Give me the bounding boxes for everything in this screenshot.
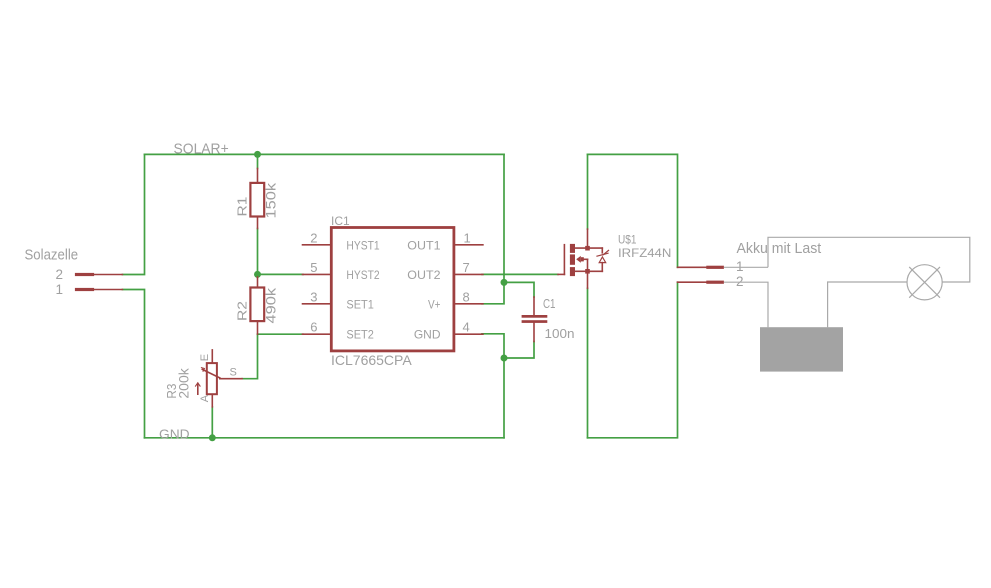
node junction SOLAR+/R1 bbox=[254, 151, 261, 158]
wire lamp left to battery bbox=[828, 282, 907, 327]
connector X1 Solazelle pin 2 bbox=[75, 273, 123, 276]
svg-text:490k: 490k bbox=[263, 287, 279, 324]
svg-text:2: 2 bbox=[55, 267, 63, 282]
wire MOSFET source down bbox=[587, 288, 589, 438]
wire R2 bottom T down to R3 wiper bbox=[242, 334, 257, 379]
wire V+ supply vertical from SOLAR+ rail bbox=[503, 154, 505, 282]
svg-text:HYST2: HYST2 bbox=[346, 268, 379, 282]
connector Akku pin 1 bbox=[678, 266, 724, 269]
wire R2 bottom T to SET2 pin 6 bbox=[258, 333, 304, 335]
svg-text:6: 6 bbox=[310, 320, 317, 335]
IC1 pin 3 SET1 bbox=[303, 303, 332, 305]
wire GND node down to GND rail bbox=[503, 358, 505, 438]
transistor U$1 IRFZ44N bbox=[558, 229, 609, 288]
node junction R3/GND rail bbox=[209, 434, 216, 441]
svg-text:OUT1: OUT1 bbox=[407, 238, 441, 252]
wire supply node to V+ pin 8 bbox=[482, 282, 504, 303]
wire source net bottom to Akku pin 2 bbox=[588, 282, 678, 438]
svg-text:2: 2 bbox=[310, 230, 317, 245]
svg-text:GND: GND bbox=[159, 426, 190, 441]
svg-text:1: 1 bbox=[736, 259, 744, 274]
node junction V+/C1 top bbox=[501, 279, 508, 286]
resistor R1 bbox=[250, 169, 264, 229]
wire GND pin 4 to GND node bbox=[482, 334, 504, 358]
connector X1 Solazelle pin 1 bbox=[75, 288, 123, 291]
wire GND node to C1 bottom bbox=[504, 342, 534, 359]
svg-text:200k: 200k bbox=[176, 367, 192, 398]
svg-text:SET2: SET2 bbox=[346, 328, 374, 342]
svg-text:4: 4 bbox=[463, 320, 470, 335]
IC1 pin 2 HYST1 bbox=[303, 244, 332, 246]
svg-text:SET1: SET1 bbox=[346, 297, 374, 311]
svg-text:C1: C1 bbox=[543, 297, 556, 311]
svg-text:1: 1 bbox=[55, 282, 63, 297]
svg-text:Solazelle: Solazelle bbox=[25, 248, 79, 264]
wire HYST2 node to IC pin 5 bbox=[258, 273, 304, 275]
connector Akku pin 2 bbox=[678, 281, 724, 284]
wire Akku pin 1 lead gray bbox=[724, 266, 768, 268]
node junction R1/R2/HYST2 bbox=[254, 271, 261, 278]
svg-text:2: 2 bbox=[736, 274, 744, 289]
svg-text:GND: GND bbox=[414, 328, 441, 342]
node junction GND/C1 bottom bbox=[501, 355, 508, 362]
svg-text:HYST1: HYST1 bbox=[346, 238, 379, 252]
IC1 pin 6 SET2 bbox=[303, 333, 332, 335]
capacitor C1 bbox=[522, 297, 548, 342]
svg-text:5: 5 bbox=[310, 260, 317, 275]
resistor R2 bbox=[250, 277, 264, 334]
svg-text:3: 3 bbox=[310, 289, 317, 304]
svg-text:150k: 150k bbox=[263, 182, 279, 219]
svg-text:R1: R1 bbox=[235, 197, 250, 217]
svg-text:Akku mit Last: Akku mit Last bbox=[737, 241, 822, 257]
svg-text:1: 1 bbox=[464, 230, 471, 245]
svg-text:IC1: IC1 bbox=[331, 214, 350, 228]
svg-text:ICL7665CPA: ICL7665CPA bbox=[331, 352, 412, 368]
wire left vertical from SOLAR+ rail to connector pin 2 bbox=[122, 154, 144, 274]
IC1 pin 7 OUT2 bbox=[454, 273, 483, 275]
wire connector pin 1 down to GND rail bbox=[122, 290, 144, 438]
svg-text:IRFZ44N: IRFZ44N bbox=[618, 246, 671, 260]
svg-text:SOLAR+: SOLAR+ bbox=[174, 142, 229, 158]
wire HYST2 node down to R2 top bbox=[257, 274, 259, 277]
wire MOSFET drain up bbox=[587, 154, 589, 229]
battery block bbox=[760, 327, 843, 371]
wire R1 top stub bbox=[257, 154, 259, 168]
wire supply node to C1 top bbox=[504, 282, 534, 297]
svg-text:S: S bbox=[230, 367, 237, 379]
svg-text:A: A bbox=[199, 394, 211, 402]
op-amp IC1 ICL7665CPA box bbox=[331, 228, 454, 351]
lamp bbox=[907, 265, 942, 300]
IC1 pin 1 OUT1 bbox=[454, 244, 483, 246]
svg-text:7: 7 bbox=[463, 260, 470, 275]
IC1 pin 8 V+ bbox=[454, 303, 483, 305]
IC1 pin 4 GND bbox=[454, 333, 483, 335]
svg-text:E: E bbox=[199, 354, 211, 361]
potentiometer R3 bbox=[195, 350, 242, 407]
wire Akku pin 2 lead gray down to battery bbox=[724, 282, 768, 327]
wire SOLAR+ top rail bbox=[145, 153, 505, 155]
wire GND bottom rail bbox=[145, 437, 505, 439]
svg-text:OUT2: OUT2 bbox=[407, 268, 441, 282]
wire Akku pin 1 up and across top to lamp right bbox=[768, 237, 970, 282]
wire drain net top to Akku pin 1 bbox=[588, 154, 678, 267]
svg-text:R2: R2 bbox=[235, 301, 250, 321]
svg-text:V+: V+ bbox=[428, 297, 441, 311]
wire R3 bottom lead to GND rail bbox=[211, 407, 213, 438]
IC1 pin 5 HYST2 bbox=[303, 273, 332, 275]
svg-text:8: 8 bbox=[463, 289, 470, 304]
wire OUT2 pin 7 to MOSFET gate bbox=[482, 273, 558, 275]
svg-text:100n: 100n bbox=[545, 327, 575, 341]
wire R1 bottom to HYST2 node bbox=[257, 229, 259, 275]
svg-text:U$1: U$1 bbox=[618, 233, 637, 247]
